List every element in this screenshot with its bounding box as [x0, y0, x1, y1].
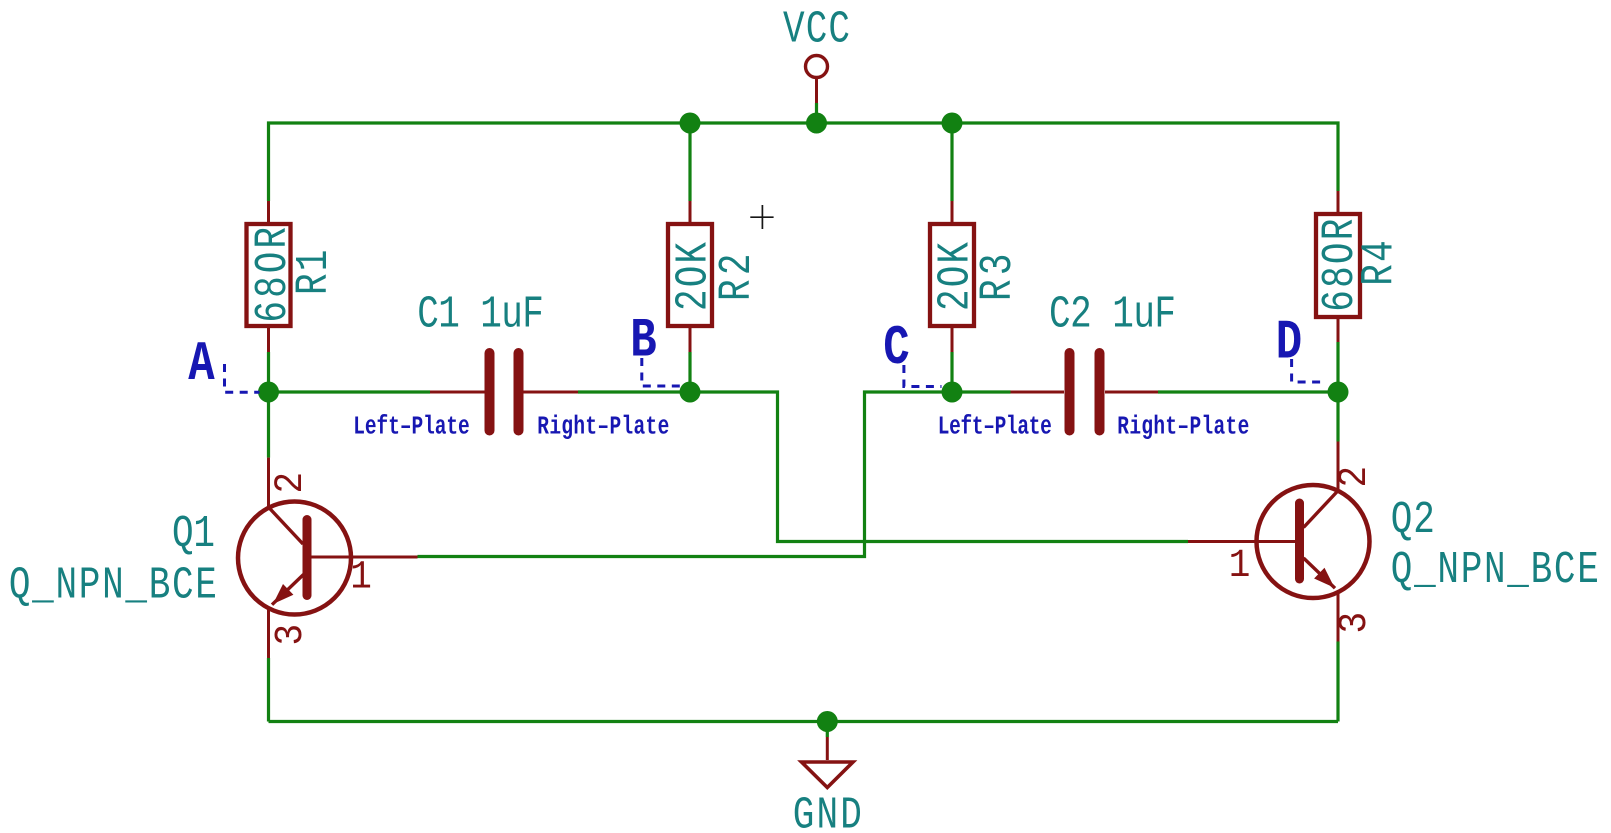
svg-text:3: 3: [269, 624, 314, 646]
svg-text:GND: GND: [793, 791, 862, 833]
svg-text:Right–Plate: Right–Plate: [1117, 412, 1249, 442]
svg-text:2: 2: [1333, 466, 1378, 488]
svg-text:B: B: [630, 310, 656, 373]
svg-text:Q_NPN_BCE: Q_NPN_BCE: [1391, 546, 1599, 597]
svg-text:Q_NPN_BCE: Q_NPN_BCE: [9, 561, 217, 612]
svg-text:Q2: Q2: [1391, 495, 1435, 546]
svg-text:Q1: Q1: [172, 510, 215, 561]
svg-text:C: C: [883, 317, 909, 380]
svg-text:1: 1: [350, 555, 372, 600]
svg-text:D: D: [1276, 312, 1302, 375]
svg-text:1: 1: [1229, 544, 1251, 589]
svg-text:3: 3: [1333, 612, 1378, 634]
svg-text:2: 2: [269, 472, 314, 494]
svg-text:Right–Plate: Right–Plate: [537, 412, 669, 442]
svg-text:Left–Plate: Left–Plate: [353, 412, 469, 442]
svg-text:C2 1uF: C2 1uF: [1049, 290, 1176, 341]
svg-text:Left–Plate: Left–Plate: [938, 412, 1052, 442]
svg-text:C1 1uF: C1 1uF: [417, 290, 544, 341]
svg-text:VCC: VCC: [783, 5, 850, 56]
svg-text:A: A: [188, 333, 215, 396]
